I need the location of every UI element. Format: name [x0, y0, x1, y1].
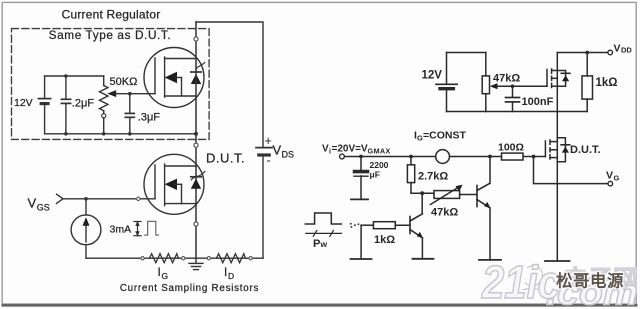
- battery VDS: [256, 148, 272, 259]
- resistor 2.7k: [407, 157, 414, 194]
- svg-text:=CONST: =CONST: [423, 130, 466, 142]
- svg-text:松哥电源: 松哥电源: [556, 271, 624, 291]
- svg-text:3mA: 3mA: [110, 224, 132, 236]
- svg-text:D.U.T.: D.U.T.: [570, 144, 601, 156]
- node: open circle on rail (lower): [194, 222, 198, 226]
- resistor 100 Ohm: [502, 153, 524, 160]
- svg-text:+: +: [265, 134, 272, 148]
- transistor Q2 (NPN): [477, 183, 491, 208]
- junction: 2.7k node: [409, 155, 413, 159]
- wire: pot wiper to gate of M1: [116, 93, 155, 95]
- svg-text:.2μF: .2μF: [72, 98, 95, 110]
- terminal: VDD: [608, 50, 613, 55]
- wire: gate drive line middle segment: [450, 156, 502, 158]
- wire: 47k wiper to gate of M3: [498, 85, 548, 87]
- svg-text:μF: μF: [370, 170, 380, 180]
- svg-text:V: V: [614, 43, 621, 55]
- svg-text:P: P: [313, 238, 320, 250]
- terminal: VG: [608, 181, 613, 186]
- svg-text:V: V: [273, 143, 282, 158]
- wire: 12V bottom rail (right): [447, 111, 588, 113]
- battery 12V (left): [38, 76, 50, 134]
- wire: Q2 emitter down: [489, 208, 491, 260]
- junction: wiper/100nF node: [511, 84, 515, 88]
- wire: bottom sampling rail: [86, 257, 263, 259]
- junction: .2uF bottom: [64, 132, 68, 136]
- junction: VGS / 3mA node: [84, 197, 88, 201]
- marker: pulse width measure line: [306, 230, 342, 236]
- dashed box: current regulator enclosure: [12, 29, 210, 140]
- capacitor 2200uF: [354, 157, 368, 200]
- svg-text:Current Sampling Resistors: Current Sampling Resistors: [120, 283, 259, 294]
- svg-text:47kΩ: 47kΩ: [431, 207, 458, 219]
- junction: .3uF bottom: [128, 132, 132, 136]
- resistor 1k (bottom): [373, 222, 395, 229]
- mosfet M1 current regulator (circle style): [144, 48, 205, 108]
- wire: to 1k resistor: [361, 224, 373, 226]
- wire: regulator bottom rail: [45, 133, 196, 135]
- svg-text:DD: DD: [621, 46, 632, 55]
- current source 3mA: [71, 199, 101, 258]
- wire: Q2 collector up: [489, 157, 491, 184]
- svg-text:DS: DS: [282, 150, 295, 160]
- current source IG (circle): [436, 150, 450, 164]
- svg-text:=20V=V: =20V=V: [332, 144, 368, 155]
- svg-text:2.7kΩ: 2.7kΩ: [418, 171, 448, 183]
- junction: rail to drain line: [194, 132, 198, 136]
- junction: 2200uF node: [359, 155, 363, 159]
- node: ID right terminal: [249, 257, 252, 260]
- wire: down to Q1 collector: [421, 193, 423, 213]
- terminal: Vi input: [340, 154, 345, 159]
- svg-text:100nF: 100nF: [522, 96, 554, 108]
- wiper arrow of 50K pot: [107, 90, 116, 97]
- ground: under Q1: [413, 258, 434, 260]
- resistor ID: [217, 254, 246, 263]
- node: open circle on rail (middle): [194, 143, 198, 147]
- wire: VGS to gate of M2: [63, 198, 155, 200]
- junction: 50K bottom on rail: [102, 132, 106, 136]
- ground: sampling rail: [189, 258, 203, 269]
- svg-text:D: D: [228, 271, 234, 281]
- junction: 1k top on VDD line: [585, 51, 589, 55]
- transistor Q1 (NPN): [410, 214, 423, 238]
- potentiometer 50K: [100, 76, 108, 134]
- node: open circle on rail (top): [194, 37, 198, 41]
- resistor 1k (top right): [582, 53, 593, 112]
- svg-text:V: V: [28, 196, 37, 211]
- svg-text:1kΩ: 1kΩ: [374, 234, 395, 246]
- node: ID left terminal: [207, 257, 210, 260]
- wire: main vertical rail of M3/M4: [556, 53, 558, 262]
- mosfet M3 current source (compact style): [547, 69, 570, 88]
- svg-text:V: V: [606, 170, 613, 182]
- node: small open circle on gate wire: [137, 197, 140, 200]
- svg-text:GMAX: GMAX: [368, 147, 391, 156]
- svg-text:I: I: [224, 267, 227, 279]
- svg-text:1kΩ: 1kΩ: [596, 77, 618, 89]
- input terminal VGS chevron: [57, 194, 64, 203]
- pulse source Pw glyph: [305, 213, 341, 224]
- node: IG right terminal: [182, 257, 185, 260]
- junction: Q1 collector node: [420, 191, 424, 195]
- mosfet M2 D.U.T. (circle style): [144, 154, 205, 214]
- svg-text:I: I: [158, 267, 161, 279]
- wire: 1k to Q1 base: [395, 224, 410, 226]
- ground: under Pw node: [351, 258, 372, 260]
- svg-text:-: -: [267, 154, 271, 168]
- potentiometer 47k (variable, diagonal arrow): [431, 185, 463, 205]
- marker: 3mA pulse waveform glyph: [145, 221, 159, 235]
- wire: regulator top rail: [45, 75, 104, 77]
- svg-text:12V: 12V: [422, 70, 443, 82]
- svg-text:2200: 2200: [370, 160, 389, 170]
- battery 12V (right): [436, 53, 457, 112]
- wire: 12V top rail (right): [447, 52, 486, 54]
- wire: down to ground from Pw node: [360, 225, 362, 259]
- wire: VG tap down and right: [534, 157, 608, 184]
- ground: under D.U.T. source: [545, 260, 570, 262]
- svg-text:w: w: [320, 239, 328, 249]
- wire: 47k pot to Q2 base: [460, 194, 477, 196]
- svg-text:GS: GS: [37, 203, 50, 213]
- svg-text:50KΩ: 50KΩ: [110, 76, 138, 88]
- svg-text:12V: 12V: [14, 97, 33, 109]
- junction: wiper/.3uF node: [128, 92, 132, 96]
- ground: under 2200uF: [351, 198, 368, 200]
- wiper arrow of 47k: [490, 83, 498, 89]
- capacitor .2uF: [61, 76, 70, 134]
- capacitor .3uF: [125, 94, 134, 134]
- junction: Q2 collector node: [488, 155, 492, 159]
- wire: VDD line: [557, 52, 608, 54]
- marker: amplitude double arrow: [134, 221, 141, 237]
- node: IG left terminal: [141, 257, 144, 260]
- wire: dotted link from pulse source: [350, 223, 360, 228]
- junction: .2uF top: [64, 74, 68, 78]
- svg-text:G: G: [162, 271, 169, 281]
- wire: main drain/source rail x=196: [195, 22, 197, 258]
- mosfet M4 D.U.T. (compact style): [545, 138, 569, 162]
- svg-text:Same Type as D.U.T.: Same Type as D.U.T.: [49, 28, 172, 42]
- resistor IG: [150, 254, 179, 263]
- wire: gate drive line left segment: [344, 156, 435, 158]
- potentiometer 47k (right top): [482, 53, 489, 112]
- svg-text:.3μF: .3μF: [138, 112, 161, 124]
- svg-text:D.U.T.: D.U.T.: [206, 151, 245, 166]
- svg-text:G: G: [614, 174, 620, 183]
- svg-text:V: V: [322, 144, 329, 155]
- wire: 2.7k bottom to 47k pot: [411, 192, 434, 194]
- svg-text:47kΩ: 47kΩ: [493, 73, 520, 85]
- svg-text:100Ω: 100Ω: [498, 142, 524, 154]
- wire: 100 Ohm to gate of M4: [523, 156, 545, 158]
- wire: top loop to VDS: [196, 22, 263, 148]
- svg-text:Current Regulator: Current Regulator: [62, 8, 161, 22]
- junction: VG tap node: [532, 155, 536, 159]
- watermark: faint doodle: [522, 265, 544, 292]
- wire: Q1 emitter down: [421, 238, 423, 259]
- ground: under Q2: [479, 259, 501, 261]
- capacitor 100nF: [506, 86, 520, 111]
